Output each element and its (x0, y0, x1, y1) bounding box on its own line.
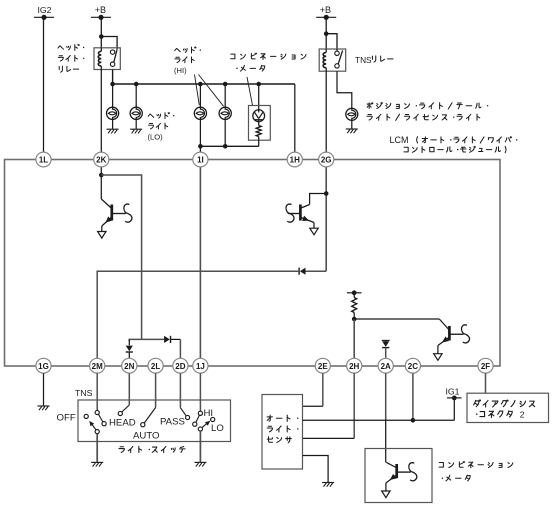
svg-text:2M: 2M (92, 362, 103, 371)
LO contact (211, 417, 215, 421)
label diagnosis connector 2 (474, 400, 535, 420)
PASS contact (186, 415, 190, 419)
wire +B to TNS relay coil (325, 17, 327, 49)
label position/tail/license lights (367, 102, 488, 120)
connector 2E (315, 358, 330, 373)
TNS contact (95, 410, 99, 414)
HEAD contact (118, 411, 122, 415)
svg-text:PASS: PASS (160, 417, 185, 428)
svg-text:AUTO: AUTO (133, 431, 159, 442)
svg-text:2F: 2F (481, 362, 490, 371)
label headlight (LO) (148, 113, 175, 142)
connector 2H (347, 358, 362, 373)
headlight HI lamp at x=200.4 (194, 84, 206, 146)
auto light sensor box (262, 395, 303, 470)
svg-text:2G: 2G (321, 156, 332, 165)
svg-text:1J: 1J (196, 362, 205, 371)
wire 2L into switch (155, 373, 157, 407)
wire OFF pivot to ground (96, 434, 98, 462)
wire D3 to connector 2M (97, 271, 299, 358)
lower lamp bus to 1I (200, 145, 258, 147)
junction below 2G (324, 191, 329, 196)
ground below LO lamp (130, 129, 142, 133)
wire +B to headlight relay coil (100, 17, 102, 48)
svg-text:1L: 1L (39, 156, 48, 165)
headlight LO lamp at x=136.2 (130, 84, 142, 129)
AUTO contact (141, 423, 145, 427)
ground below LO lamp (107, 129, 119, 133)
ground below OFF pivot (91, 462, 103, 466)
wire 2H to auto light sensor (353, 373, 355, 438)
junction at resistor bottom (352, 317, 357, 322)
junction +B branch (99, 34, 104, 39)
diode D1 (down) (126, 339, 133, 358)
branch to diode D1 and connector 2N (129, 339, 141, 341)
connector 1L (36, 152, 51, 167)
terminal +B right (316, 5, 336, 20)
wire TNS coil to connector 2G (325, 71, 327, 152)
wire 2A to combination meter transistor Q4 (385, 373, 387, 419)
wire 2E to auto light sensor (322, 373, 324, 406)
diode D4 above connector 2A (382, 340, 390, 358)
position light bulb (346, 108, 358, 129)
label LCM module (390, 135, 518, 153)
junction dots on lamp bus (110, 82, 115, 87)
svg-text:TNS: TNS (355, 55, 372, 65)
combination meter box (top) (249, 106, 271, 141)
connector 1G (36, 358, 51, 373)
wire 1I to 1J (199, 167, 201, 358)
connector 1H (287, 152, 302, 167)
transistor Q2 (mirrored) (286, 194, 326, 235)
connector 2M (90, 358, 105, 373)
diode D2 (right) (164, 336, 180, 358)
terminal +B left (91, 5, 111, 20)
meter illumination lamp (253, 110, 265, 122)
svg-text:2L: 2L (151, 362, 160, 371)
label light switch (119, 446, 185, 452)
headlight LO lamp at x=112.6 (107, 84, 119, 129)
svg-text:LO: LO (211, 423, 224, 434)
connector 2C (405, 358, 420, 373)
branch to diode D2 and connector 2D (142, 338, 165, 340)
terminal IG2 (34, 5, 54, 20)
sensor ground wire (303, 456, 329, 483)
svg-text:IG2: IG2 (38, 5, 52, 15)
connector 1I (193, 152, 208, 167)
meter resistor (256, 119, 261, 146)
svg-text:OFF: OFF (57, 413, 76, 424)
branch wire to diodes D1/D2 (101, 175, 141, 339)
TNS relay box (319, 49, 346, 71)
ground below dimmer pivot (194, 462, 206, 466)
svg-text:2D: 2D (175, 362, 185, 371)
wire 2F to diagnosis connector (485, 373, 487, 393)
ground below position light (346, 129, 358, 133)
internal supply terminal above resistor (347, 290, 362, 295)
svg-text:+B: +B (95, 5, 106, 15)
svg-text:2E: 2E (318, 362, 328, 371)
diagnosis connector box (467, 393, 549, 422)
wire junction to connector 2H (353, 319, 355, 358)
arm contact (TNS to AUTO link) (99, 414, 103, 422)
connector 2K (94, 152, 109, 167)
connector 2F (478, 358, 493, 373)
connector 2G (319, 152, 334, 167)
wire relay coil to connector 2K (100, 70, 102, 153)
connector 2D (173, 358, 188, 373)
label combination meter (bottom) (439, 461, 513, 481)
svg-text:2N: 2N (124, 362, 134, 371)
headlight HI lamp at x=225.2 (219, 84, 231, 146)
headlight relay box with coil and switch (94, 48, 120, 70)
wire dimmer pivot to ground (199, 431, 201, 462)
wire branch to TNS switch (326, 34, 337, 49)
svg-text:2K: 2K (96, 156, 106, 165)
svg-text:2: 2 (520, 410, 525, 420)
terminal IG1 (446, 387, 462, 401)
LCM module box (5, 160, 501, 367)
label combination meter (top) with pointer (231, 53, 306, 105)
transistor Q3 (354, 319, 469, 360)
wire bus to 1H (294, 84, 296, 152)
OFF fixed contact (84, 414, 88, 418)
svg-text:1G: 1G (38, 362, 49, 371)
wire +B branch to relay switch (101, 37, 117, 50)
diode D3 (left) (299, 268, 305, 275)
wire bus to combination meter lamp (258, 84, 260, 110)
connector 2L (148, 358, 163, 373)
label headlight (HI) with pointer lines (174, 47, 224, 106)
svg-text:2A: 2A (381, 362, 391, 371)
light switch box (78, 400, 231, 442)
svg-text:1H: 1H (290, 156, 300, 165)
wire 2M to light switch TNS contact (96, 373, 98, 410)
OFF switch pivot with arrow (95, 430, 99, 434)
connector 1J (193, 358, 208, 373)
dimmer pivot with arrow to LO (198, 427, 202, 431)
junction below 2K (99, 173, 104, 178)
wire IG2 to connector 1L (43, 17, 45, 152)
wire 2G to transistor Q2 (325, 167, 327, 271)
connector 2N (122, 358, 137, 373)
junction +B branch (TNS) (324, 31, 329, 36)
label TNS relay (355, 55, 393, 65)
svg-text:(HI): (HI) (174, 66, 187, 75)
wire relay switch to lamp bus (112, 70, 114, 85)
HI contact (198, 411, 202, 415)
wire 2K to transistor Q1 and branch (100, 167, 102, 199)
wire 2N into switch (128, 373, 130, 405)
ground below sensor (322, 483, 334, 487)
svg-text:+B: +B (320, 5, 331, 15)
svg-text:2C: 2C (408, 362, 418, 371)
wire 2D into switch (179, 373, 181, 407)
svg-text:2H: 2H (349, 362, 359, 371)
wire 1J into switch (199, 373, 201, 411)
wire Q2 column to diode D3 and 2M (305, 270, 327, 272)
sensor signal wire to IG1 with junction at 2C (303, 419, 455, 421)
svg-text:TNS: TNS (75, 388, 93, 398)
transistor Q1 (98, 199, 132, 238)
combination meter box (bottom) (365, 449, 432, 503)
switch position labels (57, 408, 224, 442)
svg-text:IG1: IG1 (446, 387, 460, 397)
dimmer arm link (193, 422, 197, 426)
wire TNS switch to position light (337, 71, 352, 108)
svg-text:HI: HI (204, 408, 214, 419)
transistor Q4 (382, 462, 417, 497)
label auto light sensor (267, 415, 298, 443)
label headlight relay (heddo raito riree) (58, 44, 84, 72)
svg-text:(LO): (LO) (148, 133, 164, 142)
svg-text:1I: 1I (197, 156, 204, 165)
connector 2A (378, 358, 393, 373)
lamp feed bus (113, 83, 295, 85)
wire 1G to ground (43, 373, 45, 405)
ground below 1G (38, 406, 50, 410)
resistor R1 (352, 293, 357, 319)
svg-text:LCM: LCM (390, 135, 409, 145)
svg-text:HEAD: HEAD (109, 418, 136, 429)
